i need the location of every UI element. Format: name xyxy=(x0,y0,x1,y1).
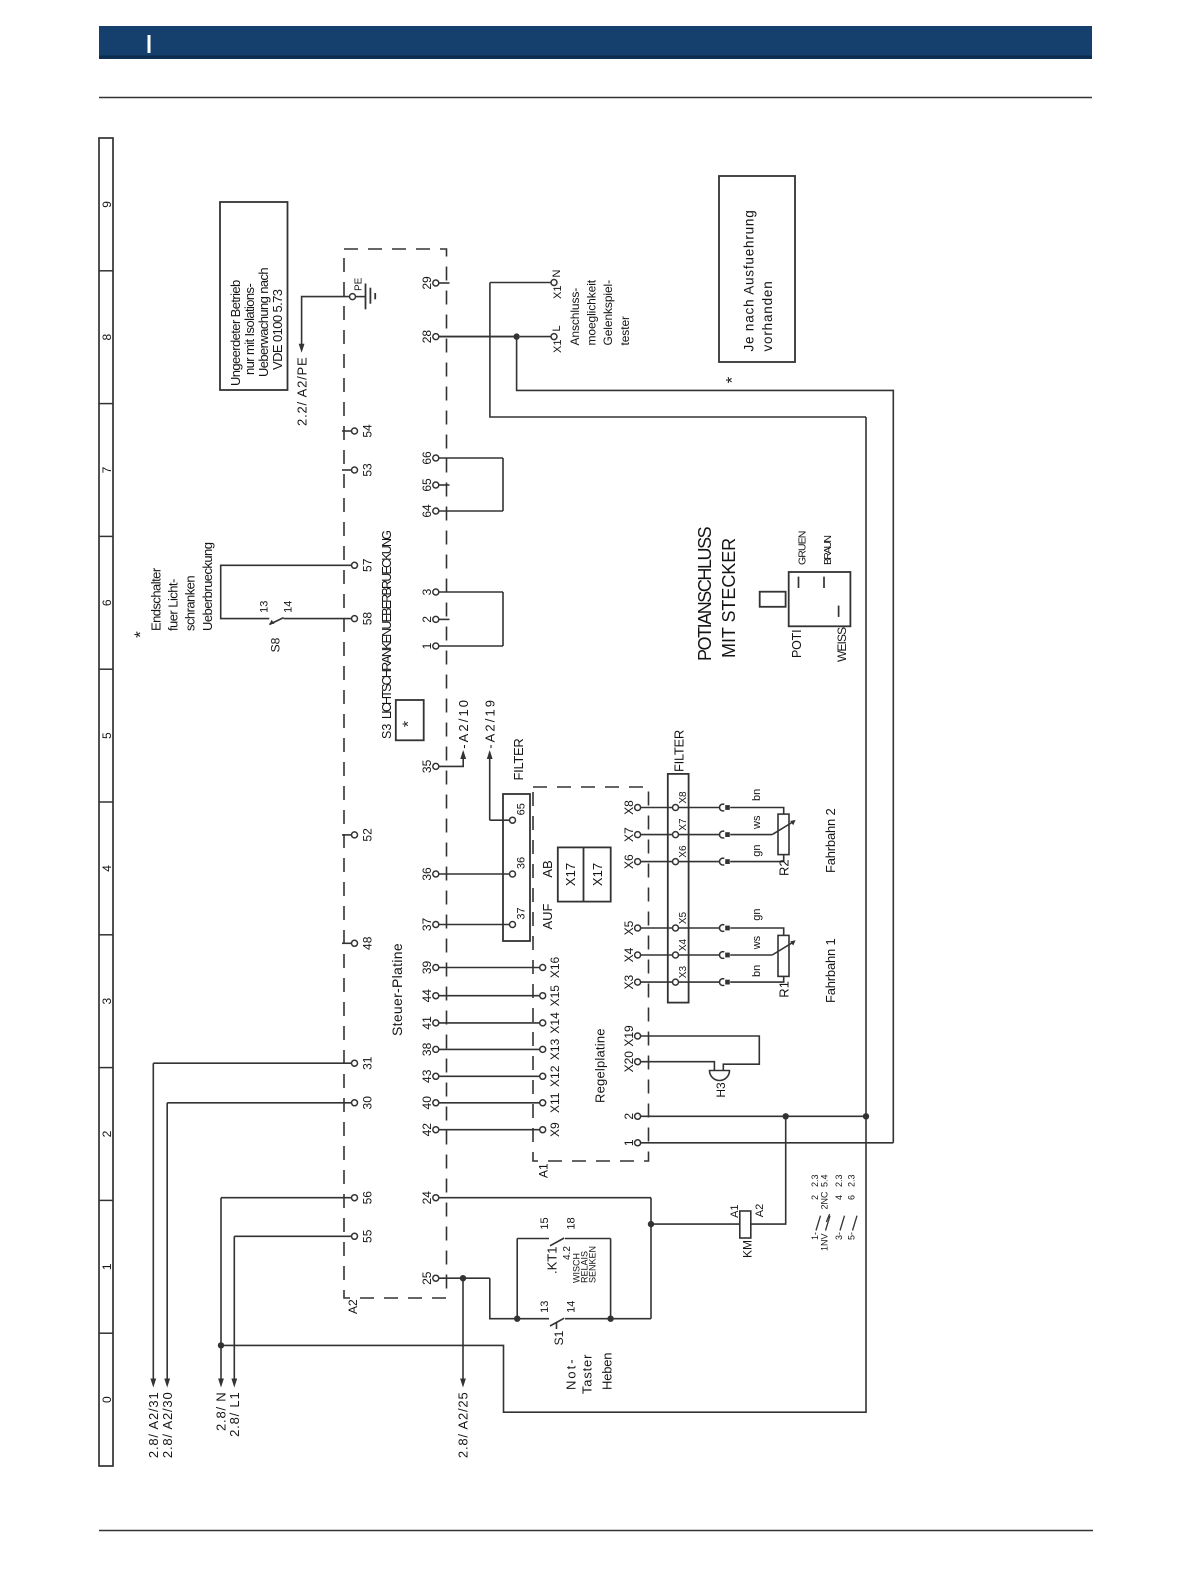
svg-text:2.8/ A2/30: 2.8/ A2/30 xyxy=(160,1392,175,1459)
svg-text:1NV: 1NV xyxy=(820,1233,830,1251)
svg-text:52: 52 xyxy=(360,828,374,842)
svg-text:15: 15 xyxy=(539,1217,551,1229)
svg-text:R2: R2 xyxy=(776,859,791,876)
svg-text:58: 58 xyxy=(360,612,374,626)
svg-text:53: 53 xyxy=(360,463,374,477)
svg-text:A2: A2 xyxy=(754,1204,766,1217)
svg-text:42: 42 xyxy=(420,1123,434,1137)
svg-text:5-: 5- xyxy=(847,1232,857,1240)
svg-text:48: 48 xyxy=(360,936,374,950)
svg-text:1: 1 xyxy=(622,1139,636,1146)
svg-text:X4: X4 xyxy=(678,938,689,951)
svg-text:MIT STECKER: MIT STECKER xyxy=(719,538,739,658)
svg-text:X5: X5 xyxy=(678,911,689,924)
svg-text:S3: S3 xyxy=(380,724,394,739)
svg-text:7: 7 xyxy=(100,466,114,473)
svg-text:5.4: 5.4 xyxy=(820,1174,830,1187)
svg-text:FILTER: FILTER xyxy=(672,730,687,772)
svg-text:WEISS: WEISS xyxy=(835,627,849,662)
svg-text:X3: X3 xyxy=(622,974,636,989)
svg-text:*: * xyxy=(401,721,418,727)
svg-text:SENKEN: SENKEN xyxy=(588,1246,598,1283)
svg-text:Gelenkspiel-: Gelenkspiel- xyxy=(601,280,615,346)
svg-text:Steuer-Platine: Steuer-Platine xyxy=(389,943,405,1036)
svg-text:Ueberwachung nach: Ueberwachung nach xyxy=(256,268,271,377)
svg-text:S8: S8 xyxy=(269,637,283,652)
svg-text:X11: X11 xyxy=(548,1092,562,1113)
svg-text:64: 64 xyxy=(420,504,434,518)
svg-text:43: 43 xyxy=(420,1069,434,1083)
svg-text:A1: A1 xyxy=(729,1204,741,1217)
svg-text:X17: X17 xyxy=(590,863,605,886)
svg-text:bn: bn xyxy=(751,789,763,801)
svg-text:POTIANSCHLUSS: POTIANSCHLUSS xyxy=(695,526,715,661)
svg-text:X1: X1 xyxy=(552,286,564,299)
svg-text:39: 39 xyxy=(420,961,434,975)
svg-text:X13: X13 xyxy=(548,1038,562,1060)
svg-text:2.3: 2.3 xyxy=(810,1174,820,1187)
svg-text:6: 6 xyxy=(100,599,114,606)
svg-text:Not-: Not- xyxy=(564,1357,579,1390)
svg-text:N: N xyxy=(551,270,563,278)
svg-text:X14: X14 xyxy=(548,1012,562,1034)
svg-text:X20: X20 xyxy=(622,1051,636,1073)
svg-text:gn: gn xyxy=(751,844,763,856)
svg-text:2.8/ A2/25: 2.8/ A2/25 xyxy=(456,1392,471,1459)
svg-text:Heben: Heben xyxy=(600,1353,615,1390)
svg-text:S1: S1 xyxy=(552,1330,566,1345)
svg-text:65: 65 xyxy=(515,803,527,815)
svg-text:AB: AB xyxy=(540,860,555,877)
svg-text:3-: 3- xyxy=(834,1232,844,1240)
svg-text:nur mit Isolations-: nur mit Isolations- xyxy=(242,284,257,375)
svg-text:4: 4 xyxy=(834,1195,844,1200)
svg-text:30: 30 xyxy=(360,1096,374,1110)
svg-text:28: 28 xyxy=(420,330,434,344)
svg-text:41: 41 xyxy=(420,1016,434,1030)
svg-text:2: 2 xyxy=(100,1130,114,1137)
svg-text:14: 14 xyxy=(282,601,294,613)
svg-text:KM: KM xyxy=(741,1240,755,1258)
svg-text:57: 57 xyxy=(360,558,374,572)
svg-text:X19: X19 xyxy=(622,1025,636,1047)
svg-text:8: 8 xyxy=(100,334,114,341)
svg-text:2.3: 2.3 xyxy=(847,1174,857,1187)
svg-text:GRUEN: GRUEN xyxy=(796,531,808,565)
svg-text:.KT1: .KT1 xyxy=(545,1247,560,1274)
svg-text:X1: X1 xyxy=(552,340,564,353)
svg-text:X12: X12 xyxy=(548,1065,562,1087)
svg-text:2: 2 xyxy=(810,1195,820,1200)
svg-text:Taster: Taster xyxy=(580,1354,595,1394)
svg-text:13: 13 xyxy=(539,1301,551,1313)
svg-text:Fahrbahn 2: Fahrbahn 2 xyxy=(823,809,838,874)
svg-text:40: 40 xyxy=(420,1096,434,1110)
svg-text:56: 56 xyxy=(360,1191,374,1205)
svg-text:X17: X17 xyxy=(563,863,578,886)
svg-text:*: * xyxy=(723,376,742,383)
svg-text:2NC: 2NC xyxy=(820,1191,830,1210)
svg-text:FILTER: FILTER xyxy=(511,738,526,780)
svg-text:55: 55 xyxy=(360,1229,374,1243)
svg-text:5: 5 xyxy=(100,732,114,739)
svg-text:H3: H3 xyxy=(714,1082,728,1098)
svg-text:Ungeerdeter Betrieb: Ungeerdeter Betrieb xyxy=(228,280,243,386)
svg-text:2: 2 xyxy=(622,1113,636,1120)
svg-text:44: 44 xyxy=(420,989,434,1003)
svg-text:Je nach Ausfuehrung: Je nach Ausfuehrung xyxy=(741,209,756,351)
svg-text:X3: X3 xyxy=(678,966,689,979)
svg-text:gn: gn xyxy=(751,908,763,920)
svg-text:4: 4 xyxy=(100,865,114,872)
svg-text:PE: PE xyxy=(353,277,364,291)
svg-text:POTI: POTI xyxy=(790,630,804,658)
svg-text:VDE 0100 5.73: VDE 0100 5.73 xyxy=(270,289,285,370)
svg-text:Ueberbrueckung: Ueberbrueckung xyxy=(200,542,215,631)
svg-text:fuer Licht-: fuer Licht- xyxy=(166,579,181,631)
svg-text:37: 37 xyxy=(515,907,527,919)
svg-text:X7: X7 xyxy=(622,827,636,842)
svg-text:13: 13 xyxy=(258,601,270,613)
svg-text:BRAUN: BRAUN xyxy=(822,536,834,565)
svg-text:36: 36 xyxy=(420,867,434,881)
svg-text:bn: bn xyxy=(751,965,763,977)
svg-text:36: 36 xyxy=(515,857,527,869)
svg-text:X4: X4 xyxy=(622,947,636,962)
svg-text:L: L xyxy=(551,325,563,331)
svg-text:2.3: 2.3 xyxy=(834,1174,844,1187)
svg-text:2.2/ A2/PE: 2.2/ A2/PE xyxy=(294,357,309,426)
svg-text:X15: X15 xyxy=(548,985,562,1007)
svg-text:X8: X8 xyxy=(622,800,636,815)
svg-text:schranken: schranken xyxy=(183,576,198,631)
svg-text:tester: tester xyxy=(618,316,632,346)
svg-text:-A2/19: -A2/19 xyxy=(482,698,497,749)
svg-text:6: 6 xyxy=(847,1195,857,1200)
svg-text:1-: 1- xyxy=(810,1232,820,1240)
svg-text:X8: X8 xyxy=(678,791,689,804)
svg-text:A2: A2 xyxy=(346,1299,360,1314)
svg-text:Regelplatine: Regelplatine xyxy=(593,1028,608,1103)
svg-text:31: 31 xyxy=(360,1056,374,1070)
svg-text:X9: X9 xyxy=(548,1122,562,1137)
svg-text:X6: X6 xyxy=(678,845,689,858)
svg-text:66: 66 xyxy=(420,451,434,465)
svg-text:65: 65 xyxy=(420,478,434,492)
svg-text:X16: X16 xyxy=(548,957,562,979)
svg-text:A1: A1 xyxy=(537,1163,551,1178)
svg-text:R1: R1 xyxy=(776,981,791,998)
svg-text:X7: X7 xyxy=(678,818,689,831)
svg-text:35: 35 xyxy=(420,759,434,773)
svg-text:54: 54 xyxy=(360,424,374,438)
svg-text:LICHTSCHRANKENUEBERBRUECKUNG: LICHTSCHRANKENUEBERBRUECKUNG xyxy=(380,531,394,719)
svg-text:3: 3 xyxy=(100,998,114,1005)
svg-text:37: 37 xyxy=(420,918,434,932)
svg-text:29: 29 xyxy=(420,276,434,290)
svg-text:18: 18 xyxy=(565,1217,577,1229)
svg-text:ws: ws xyxy=(751,815,763,830)
svg-text:-A2/10: -A2/10 xyxy=(456,698,471,749)
svg-text:Fahrbahn 1: Fahrbahn 1 xyxy=(823,939,838,1004)
svg-text:X6: X6 xyxy=(622,854,636,869)
svg-text:2.8/ L1: 2.8/ L1 xyxy=(227,1392,242,1437)
svg-text:2.8/ A2/31: 2.8/ A2/31 xyxy=(146,1392,161,1459)
svg-text:9: 9 xyxy=(100,201,114,208)
svg-text:2: 2 xyxy=(420,616,434,623)
svg-text:moeglichkeit: moeglichkeit xyxy=(584,279,598,345)
svg-text:*: * xyxy=(131,631,150,638)
svg-text:24: 24 xyxy=(420,1191,434,1205)
svg-text:38: 38 xyxy=(420,1042,434,1056)
svg-text:3: 3 xyxy=(420,588,434,595)
svg-text:1: 1 xyxy=(420,642,434,649)
svg-text:vorhanden: vorhanden xyxy=(760,280,775,351)
svg-text:ws: ws xyxy=(751,935,763,950)
svg-text:1: 1 xyxy=(100,1263,114,1270)
svg-text:25: 25 xyxy=(420,1271,434,1285)
svg-text:Anschluss-: Anschluss- xyxy=(568,288,582,346)
svg-text:0: 0 xyxy=(100,1396,114,1403)
svg-text:Endschalter: Endschalter xyxy=(149,567,164,631)
svg-text:AUF: AUF xyxy=(540,903,555,929)
svg-text:X5: X5 xyxy=(622,920,636,935)
svg-text:14: 14 xyxy=(565,1301,577,1313)
